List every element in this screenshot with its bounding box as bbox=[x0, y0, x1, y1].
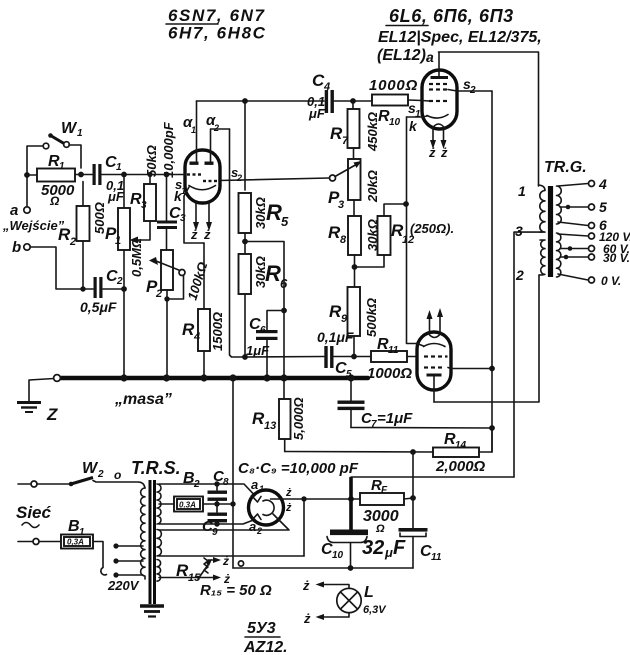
svg-text:=1μF: =1μF bbox=[377, 410, 413, 427]
upper tube anode lead to a bbox=[438, 52, 440, 76]
svg-text:11: 11 bbox=[431, 552, 442, 563]
tap 0V bbox=[558, 274, 621, 288]
svg-text:ż: ż bbox=[222, 554, 229, 568]
tube type label 6SN7,6N7 bbox=[166, 6, 266, 25]
node R9 bottom on C5 line bbox=[351, 354, 357, 360]
switch W1 bbox=[43, 120, 83, 149]
svg-text:2: 2 bbox=[256, 526, 262, 536]
svg-text:3: 3 bbox=[141, 200, 147, 211]
svg-text:b: b bbox=[12, 239, 21, 256]
svg-text:R₁₅ = 50 Ω: R₁₅ = 50 Ω bbox=[200, 582, 272, 599]
tap 30V bbox=[560, 251, 630, 265]
svg-text:TR.G.: TR.G. bbox=[544, 159, 587, 176]
svg-text:a: a bbox=[426, 49, 434, 65]
svg-text:32: 32 bbox=[362, 537, 384, 559]
node R14 left junction bbox=[410, 449, 416, 455]
label 5Y3 / AZ12 bbox=[243, 620, 288, 655]
svg-text:2,000Ω: 2,000Ω bbox=[435, 458, 486, 475]
chassis ground wire bbox=[29, 379, 54, 403]
capacitor C8 bbox=[208, 468, 230, 512]
wire RF right vertical bbox=[412, 452, 414, 528]
node C6 branch bbox=[281, 308, 287, 314]
svg-text:1: 1 bbox=[116, 162, 122, 173]
svg-text:0,5MΩ: 0,5MΩ bbox=[129, 238, 144, 277]
resistor R1 bbox=[27, 153, 81, 208]
label s2 upper bbox=[463, 76, 476, 96]
wiper arrow P2 bbox=[149, 257, 185, 302]
selector hook bbox=[101, 568, 107, 575]
wire lower screen to screens line bbox=[448, 368, 492, 369]
rectifier anode 1 electrode bbox=[252, 496, 262, 503]
cathode line k vertical bbox=[406, 117, 408, 343]
node R6 bottom / C5 line bbox=[242, 354, 248, 360]
svg-text:EL12|Spec, EL12/375,: EL12|Spec, EL12/375, bbox=[378, 29, 542, 46]
svg-text:6L6, 6П6, 6П3: 6L6, 6П6, 6П3 bbox=[389, 6, 514, 26]
svg-text:a: a bbox=[249, 519, 256, 534]
svg-text:2: 2 bbox=[116, 276, 123, 287]
svg-text:1500Ω: 1500Ω bbox=[210, 312, 225, 351]
label a2 rectifier bbox=[249, 519, 262, 536]
upper tube cathode k lead bbox=[407, 116, 428, 117]
potentiometer P2 bbox=[146, 250, 210, 378]
svg-text:9: 9 bbox=[212, 527, 218, 538]
svg-text:14: 14 bbox=[455, 440, 467, 451]
wire C6 branch down to masa and R13 bbox=[283, 311, 285, 400]
node R12 top on k line bbox=[403, 201, 409, 207]
svg-text:W: W bbox=[82, 460, 99, 477]
input terminal b bbox=[12, 239, 30, 256]
svg-text:„masa”: „masa” bbox=[114, 391, 172, 408]
heater feed arrow bottom bbox=[159, 572, 230, 586]
svg-text:2: 2 bbox=[469, 85, 476, 96]
bus junction dots bbox=[120, 374, 354, 381]
tube1 anode plates bbox=[190, 162, 214, 165]
node C9 bottom bbox=[214, 521, 219, 526]
upper tube anode plate bbox=[431, 76, 449, 79]
wiper P3 circle and arrow bbox=[330, 161, 362, 181]
heater labels z rectifier bbox=[285, 487, 292, 514]
wiper arrow R3 to P1 bbox=[130, 221, 151, 244]
resistor R7 bbox=[330, 101, 380, 159]
svg-text:8: 8 bbox=[223, 477, 229, 488]
svg-text:ż: ż bbox=[285, 502, 292, 514]
svg-text:2: 2 bbox=[515, 267, 524, 283]
pentode lower output tube envelope bbox=[417, 332, 451, 390]
wire screen s2 upper tube to screens line bbox=[448, 90, 492, 92]
wire C7 to screens line bbox=[351, 427, 492, 430]
TRS primary taps bbox=[113, 543, 143, 577]
wire b to C2 bbox=[30, 247, 93, 289]
svg-text:ż: ż bbox=[303, 611, 311, 626]
svg-text:L: L bbox=[364, 584, 374, 601]
node B+ thick line top bbox=[348, 496, 354, 502]
label a1 rectifier bbox=[251, 477, 264, 494]
wire anode top line to TRG pin1 bbox=[439, 52, 539, 186]
svg-text:500kΩ: 500kΩ bbox=[364, 298, 379, 337]
TRS 6.3V secondary coil bbox=[157, 560, 161, 582]
wire R13 to R14 bbox=[285, 451, 433, 454]
TRS HV secondary coil bbox=[157, 484, 161, 524]
lower tube screen dashes bbox=[424, 366, 442, 368]
lamp lead top arrow bbox=[302, 578, 349, 593]
capacitor C1 bbox=[81, 154, 125, 204]
tube1 grid s2 dashes bbox=[203, 180, 217, 182]
svg-text:8: 8 bbox=[340, 234, 347, 246]
tube1 cathode k lead bbox=[184, 187, 204, 243]
svg-text:ż: ż bbox=[190, 227, 198, 242]
svg-text:7: 7 bbox=[342, 135, 349, 147]
capacitor C9 bbox=[202, 513, 227, 539]
svg-text:1: 1 bbox=[259, 484, 264, 494]
capacitor C7 bbox=[338, 378, 414, 430]
resistor R10 bbox=[369, 77, 422, 128]
wire 5V winding line bbox=[159, 514, 289, 530]
node R5 branch on a1 line bbox=[242, 98, 248, 104]
lower tube heater legs arrows up bbox=[427, 308, 444, 332]
svg-text:2: 2 bbox=[236, 173, 242, 183]
svg-text:6: 6 bbox=[260, 325, 266, 336]
svg-text:5,000Ω: 5,000Ω bbox=[291, 397, 306, 440]
node R8/R12 junction bbox=[352, 264, 358, 270]
svg-text:10: 10 bbox=[332, 550, 344, 561]
fuse B1 bbox=[18, 518, 93, 549]
svg-text:ż: ż bbox=[440, 145, 448, 160]
capacitor C10 electrolytic bbox=[321, 530, 406, 569]
resistor R5 bbox=[239, 101, 290, 254]
wire W2 stub left bbox=[18, 483, 30, 485]
heater labels z tube1 bbox=[190, 227, 211, 242]
wire B1 to 220V selector hook bbox=[93, 542, 103, 568]
wire filament to 5V winding bbox=[303, 499, 305, 556]
node a/R1 left junction bbox=[24, 172, 30, 178]
tube1 cathode arc bbox=[189, 186, 216, 190]
node C8 top bbox=[214, 481, 219, 486]
resistor R14 bbox=[433, 430, 492, 475]
tube1 anode a1 lead bbox=[196, 101, 198, 161]
svg-text:450kΩ: 450kΩ bbox=[365, 112, 380, 152]
svg-text:1: 1 bbox=[518, 183, 526, 199]
svg-text:a: a bbox=[251, 477, 258, 492]
node R3 top bbox=[147, 172, 152, 177]
node C2/P1 junction bbox=[121, 286, 127, 292]
svg-text:30kΩ: 30kΩ bbox=[253, 197, 268, 229]
resistor RF bbox=[360, 477, 413, 535]
upper tube control grid dashes bbox=[429, 100, 447, 102]
tap 120V bbox=[558, 230, 630, 244]
svg-text:k: k bbox=[409, 118, 418, 134]
svg-text:R: R bbox=[266, 200, 282, 225]
label s1 upper bbox=[408, 100, 421, 120]
tap 5 bbox=[560, 199, 607, 215]
svg-text:μF: μF bbox=[308, 106, 326, 121]
svg-text:4: 4 bbox=[323, 81, 330, 93]
output transformer TRG core bbox=[548, 186, 553, 277]
svg-text:o: o bbox=[114, 468, 121, 482]
rectifier filament B+ wire bbox=[271, 498, 361, 500]
svg-text:Ω: Ω bbox=[375, 523, 385, 535]
potentiometer P1 bbox=[105, 175, 144, 290]
cathode resistor R4 bbox=[182, 243, 225, 378]
svg-text:F: F bbox=[393, 537, 406, 559]
svg-text:0,5μF: 0,5μF bbox=[80, 299, 117, 315]
svg-text:1μF: 1μF bbox=[246, 343, 270, 358]
TRS core ground symbol bbox=[140, 606, 164, 617]
svg-text:W: W bbox=[61, 120, 78, 137]
svg-text:0,1μF: 0,1μF bbox=[317, 329, 354, 345]
TRG secondary lower coil bbox=[557, 233, 561, 277]
TRS 5V secondary coil bbox=[157, 530, 161, 556]
wire W2 to TRS primary bbox=[93, 481, 145, 489]
svg-text:a: a bbox=[10, 202, 18, 219]
resistor R11 bbox=[367, 336, 417, 382]
pilot lamp L bbox=[337, 584, 387, 616]
svg-text:3: 3 bbox=[180, 213, 186, 224]
resistor R8 bbox=[328, 200, 380, 287]
svg-text:50kΩ: 50kΩ bbox=[144, 145, 159, 177]
svg-text:6,3V: 6,3V bbox=[363, 604, 387, 616]
upper tube cathode arc bbox=[427, 115, 448, 119]
svg-text:(250Ω).: (250Ω). bbox=[410, 221, 454, 236]
node filament to 5V winding bbox=[301, 496, 306, 501]
TRG primary upper coil bbox=[539, 185, 546, 232]
label s1 bbox=[175, 177, 186, 196]
masa drop wire bbox=[232, 378, 234, 568]
B+ thick line bbox=[349, 477, 353, 530]
upper tube screen dashes bbox=[429, 84, 447, 90]
tap 60V bbox=[560, 242, 630, 256]
fuse B2 bbox=[159, 497, 233, 512]
screens vertical line bbox=[491, 91, 493, 452]
node R2/b junction bbox=[80, 286, 85, 291]
svg-text:1000Ω: 1000Ω bbox=[367, 365, 412, 382]
terminal o on rail bbox=[238, 561, 243, 566]
rectifier anode 2 electrode bbox=[252, 514, 262, 521]
svg-text:0 V.: 0 V. bbox=[601, 274, 621, 288]
wire R10 into grid s1 bbox=[422, 100, 429, 103]
node RF right bbox=[410, 495, 416, 501]
node R7 top bbox=[350, 98, 356, 104]
svg-text:1: 1 bbox=[191, 125, 196, 135]
TRG primary lower coil bbox=[539, 240, 545, 275]
resistor R9 bbox=[329, 287, 379, 357]
tube1 anode a2 lead bbox=[211, 129, 230, 161]
lamp lead bottom arrow bbox=[303, 611, 349, 626]
wire a2 down to R6 bottom bbox=[230, 129, 244, 357]
wire W1 to junction bbox=[69, 145, 81, 168]
svg-text:C₈·C₉ =10,000 pF: C₈·C₉ =10,000 pF bbox=[238, 460, 359, 477]
svg-text:1: 1 bbox=[59, 161, 65, 172]
svg-text:Z: Z bbox=[46, 405, 58, 424]
svg-text:1: 1 bbox=[115, 235, 121, 247]
resistor R12 bbox=[357, 204, 414, 267]
svg-text:F: F bbox=[381, 485, 388, 496]
svg-text:0.3A: 0.3A bbox=[179, 501, 196, 510]
capacitor C3 bbox=[157, 121, 186, 249]
svg-text:0,3A: 0,3A bbox=[67, 538, 84, 547]
tube1 grid s1 dashes bbox=[187, 173, 201, 175]
triode tube1 6SN7 envelope bbox=[185, 150, 220, 203]
wire R5R6 junction to C6 branch bbox=[245, 242, 284, 311]
wire a1 top line to C4 bbox=[197, 100, 325, 102]
svg-text:2: 2 bbox=[193, 479, 200, 490]
svg-text:ż: ż bbox=[203, 227, 211, 242]
node fuse/C8C9 mid bbox=[214, 501, 219, 506]
svg-text:B: B bbox=[183, 470, 195, 487]
svg-text:AZ12.: AZ12. bbox=[243, 639, 288, 655]
resistor R13 bbox=[252, 397, 306, 451]
heater feed arrow top bbox=[208, 554, 229, 568]
wire HV top tap to rectifier a1 bbox=[159, 484, 255, 496]
heater labels z upper bbox=[428, 145, 448, 160]
svg-text:„Wejście”: „Wejście” bbox=[2, 218, 65, 233]
svg-text:6SN7, 6N7: 6SN7, 6N7 bbox=[168, 6, 266, 25]
svg-text:4: 4 bbox=[193, 331, 200, 343]
lower tube anode plate bbox=[427, 374, 442, 377]
wire s2 line tube1 to P3 wiper bbox=[219, 178, 329, 181]
label alpha2 bbox=[206, 112, 219, 133]
svg-text:B: B bbox=[68, 518, 80, 535]
svg-text:1000Ω: 1000Ω bbox=[369, 77, 418, 94]
resistor R3 bbox=[130, 145, 159, 221]
input terminal a bbox=[10, 202, 30, 219]
rectifier filament bbox=[263, 500, 274, 515]
wire HV bottom tap to rectifier a2 bbox=[159, 520, 255, 525]
svg-text:1: 1 bbox=[79, 527, 85, 538]
node lower screen junction bbox=[489, 366, 495, 372]
svg-text:9: 9 bbox=[341, 313, 348, 325]
node R5/R6 junction bbox=[242, 239, 248, 245]
potentiometer P3 bbox=[328, 159, 380, 211]
pentode upper output tube envelope bbox=[422, 70, 457, 129]
svg-text:k: k bbox=[174, 188, 183, 204]
negative rail wire bbox=[233, 567, 413, 569]
wire P1 down to masa bbox=[123, 289, 125, 378]
switch W2 bbox=[31, 460, 104, 487]
svg-text:Sieć: Sieć bbox=[16, 503, 52, 522]
label alpha1 bbox=[183, 114, 196, 135]
svg-text:20kΩ: 20kΩ bbox=[365, 170, 380, 203]
svg-text:μ: μ bbox=[384, 545, 393, 560]
wire B+ to TRG pin3 bbox=[351, 476, 514, 478]
lower tube grid dashes bbox=[424, 355, 448, 357]
rectifier tube 5Y3 envelope bbox=[249, 490, 284, 525]
svg-text:11: 11 bbox=[388, 345, 399, 356]
wire 5V bottom tap line bbox=[159, 555, 304, 557]
lower tube heater dome bbox=[428, 333, 441, 338]
capacitor C6 bbox=[246, 311, 284, 379]
svg-text:3: 3 bbox=[515, 223, 523, 239]
upper tube heater legs arrows bbox=[430, 129, 447, 149]
node fuse to masa drop bbox=[230, 501, 235, 506]
svg-text:220V: 220V bbox=[107, 578, 140, 593]
resistor R6 bbox=[239, 254, 289, 357]
tap 6 bbox=[558, 217, 607, 233]
TRS primary coil bbox=[141, 488, 145, 579]
node C1 out to P1 bbox=[121, 172, 127, 178]
capacitor C4 bbox=[307, 71, 371, 121]
rheostat R15 bbox=[176, 558, 212, 584]
lower tube cathode lead to k line bbox=[407, 344, 424, 347]
svg-text:2: 2 bbox=[155, 288, 162, 300]
svg-text:30 V.: 30 V. bbox=[603, 251, 630, 265]
svg-text:30kΩ: 30kΩ bbox=[253, 256, 268, 288]
svg-text:10,000pF: 10,000pF bbox=[161, 121, 176, 178]
masa ground bus bbox=[56, 376, 368, 380]
node C7/screens junction bbox=[489, 425, 495, 431]
svg-text:(EL12).: (EL12). bbox=[377, 47, 430, 64]
wire a to R1/W1 bbox=[27, 146, 43, 207]
tube type label 6L6 row bbox=[386, 6, 514, 26]
node R1 right junction bbox=[78, 172, 84, 178]
node C3 top bbox=[164, 172, 170, 178]
label B2 bbox=[183, 470, 200, 490]
capacitor C11 bbox=[399, 528, 442, 568]
svg-text:10: 10 bbox=[389, 117, 401, 128]
label Siec bbox=[16, 503, 52, 528]
node C10 on rail bbox=[348, 565, 354, 571]
tap 4 bbox=[558, 176, 607, 192]
upper tube heater dome bbox=[432, 124, 445, 129]
tube1 heater legs with arrows bbox=[193, 202, 212, 231]
svg-text:ż: ż bbox=[428, 145, 436, 160]
chassis ground symbol bbox=[17, 403, 41, 413]
wire lower anode to TRG pin2 bbox=[434, 275, 539, 402]
svg-text:ż: ż bbox=[302, 578, 310, 593]
svg-text:Ω: Ω bbox=[49, 194, 60, 208]
mains transformer TRS core bbox=[150, 480, 155, 604]
svg-text:5: 5 bbox=[281, 214, 289, 229]
capacitor C5 bbox=[245, 329, 371, 380]
TRG pin3 wire bbox=[514, 232, 542, 477]
svg-text:5: 5 bbox=[599, 199, 607, 215]
svg-text:2: 2 bbox=[69, 236, 76, 248]
svg-text:2: 2 bbox=[213, 123, 219, 133]
svg-text:2: 2 bbox=[97, 469, 104, 480]
svg-text:4: 4 bbox=[598, 176, 607, 192]
label s2 tube1 bbox=[231, 165, 242, 183]
TRG secondary upper coil bbox=[557, 186, 562, 224]
lower tube cathode arc bbox=[424, 344, 446, 347]
svg-text:ż: ż bbox=[285, 487, 292, 499]
svg-text:1: 1 bbox=[77, 128, 83, 139]
svg-text:6H7, 6H8C: 6H7, 6H8C bbox=[168, 24, 267, 43]
resistor R2 bbox=[58, 182, 107, 290]
lower tube anode lead down bbox=[433, 376, 435, 402]
svg-text:3: 3 bbox=[338, 199, 344, 211]
svg-text:5У3: 5У3 bbox=[247, 620, 276, 637]
svg-text:μF: μF bbox=[107, 189, 125, 204]
svg-text:T.R.S.: T.R.S. bbox=[131, 458, 181, 478]
capacitor C2 bbox=[80, 268, 124, 315]
wire grid s1 line into tube1 bbox=[124, 174, 186, 176]
svg-text:13: 13 bbox=[264, 420, 276, 432]
